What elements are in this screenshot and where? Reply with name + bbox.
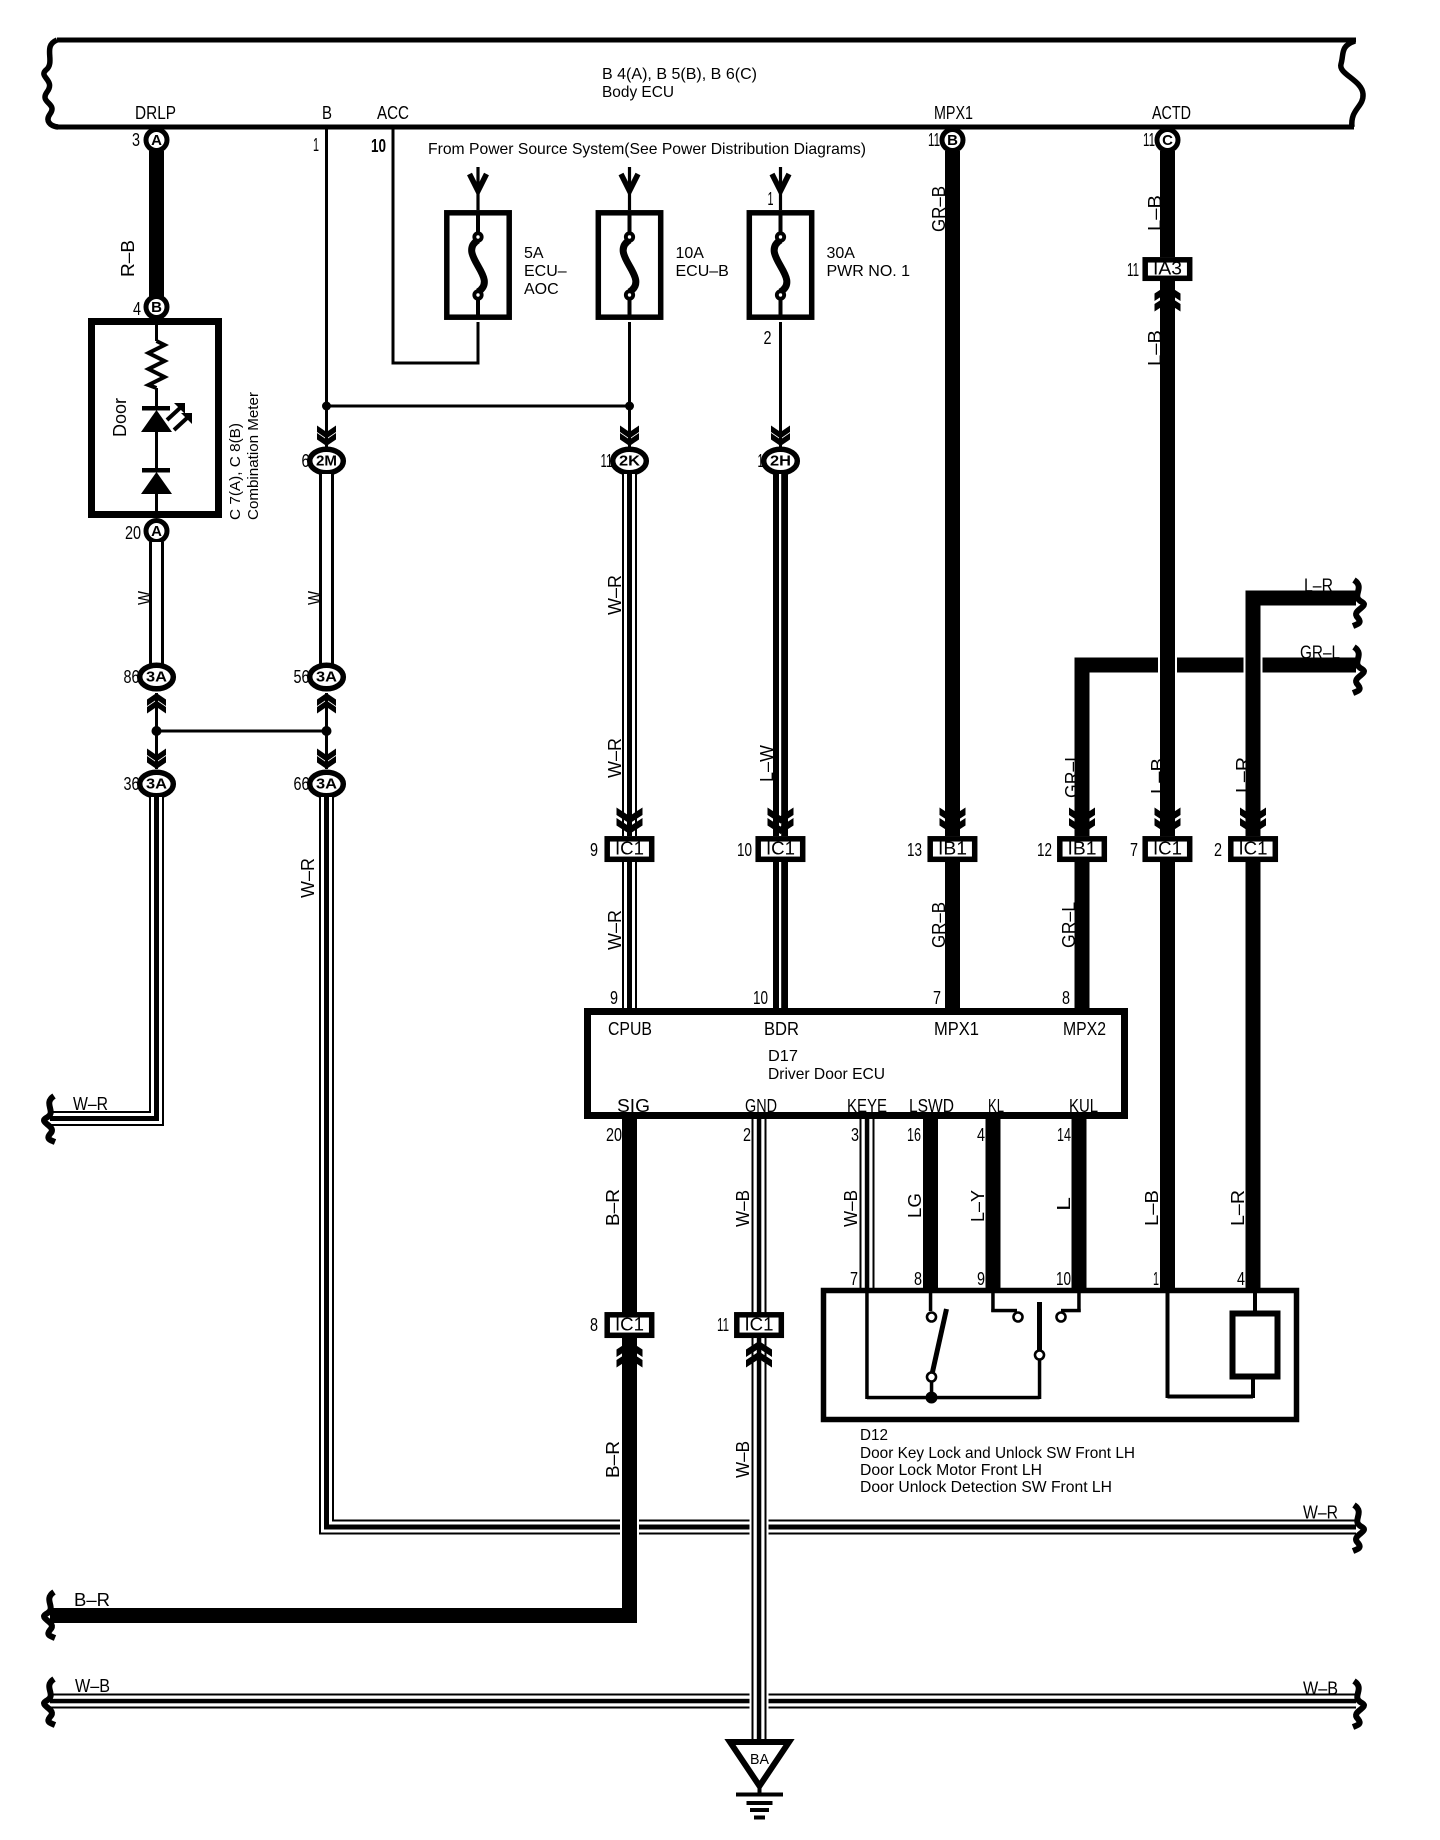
svg-text:2: 2 [764, 328, 772, 348]
svg-text:W–B: W–B [841, 1190, 861, 1227]
combination meter box C7(A) C8(B) [92, 322, 263, 521]
wire W-B ground bus to left and right edges [44, 1676, 1364, 1727]
connector 3A pin 86 [124, 665, 174, 689]
svg-text:11: 11 [928, 130, 940, 150]
svg-text:W–B: W–B [75, 1676, 110, 1696]
svg-text:Combination Meter: Combination Meter [245, 392, 262, 520]
svg-text:B–R: B–R [74, 1590, 110, 1610]
wire W-R from 3A-36 to left edge [44, 797, 164, 1142]
svg-text:L–B: L–B [1142, 1190, 1162, 1226]
wire from fuse PWR NO.1 to 2H [779, 322, 782, 447]
svg-text:C: C [1162, 132, 1173, 149]
connector IB1 pin 13 [907, 808, 975, 861]
svg-text:IC1: IC1 [615, 839, 644, 859]
svg-text:W–R: W–R [73, 1094, 108, 1114]
svg-text:6: 6 [302, 451, 310, 471]
svg-text:GR–L: GR–L [1300, 643, 1340, 663]
svg-text:10: 10 [1056, 1269, 1071, 1289]
junction node ECU-B wire [625, 402, 634, 411]
svg-text:B–R: B–R [603, 1441, 623, 1478]
wire R-B from DRLP to combination meter [118, 151, 164, 297]
connector IC1 pin 7 [1130, 808, 1190, 861]
svg-text:IB1: IB1 [938, 839, 967, 859]
svg-text:D12: D12 [860, 1427, 888, 1444]
svg-text:W: W [305, 591, 325, 605]
svg-text:Door Key Lock and Unlock SW Fr: Door Key Lock and Unlock SW Front LH [860, 1445, 1135, 1462]
svg-text:2M: 2M [316, 453, 337, 470]
svg-text:L–R: L–R [1304, 576, 1333, 596]
svg-text:1: 1 [313, 135, 319, 155]
wire junction segment left [147, 693, 166, 731]
svg-text:2K: 2K [619, 453, 640, 470]
wire GR-L from IB1 to D17 MPX2 pin 8 [1059, 862, 1090, 1011]
svg-text:36: 36 [124, 774, 140, 794]
svg-text:L–W: L–W [757, 745, 777, 782]
svg-text:KEYE: KEYE [847, 1096, 887, 1116]
svg-text:From Power Source System(See P: From Power Source System(See Power Distr… [428, 141, 866, 158]
svg-text:GR–B: GR–B [929, 186, 949, 232]
svg-text:SIG: SIG [617, 1096, 650, 1116]
wire L-B from ACTD to IA3 [1145, 151, 1175, 257]
svg-text:IC1: IC1 [766, 839, 795, 859]
svg-text:B: B [322, 103, 332, 123]
svg-text:MPX2: MPX2 [1063, 1019, 1106, 1039]
svg-text:10: 10 [371, 136, 386, 156]
svg-text:3A: 3A [316, 776, 337, 793]
wire B-R horizontal to left edge [44, 1590, 637, 1638]
svg-text:1: 1 [768, 189, 774, 209]
svg-text:CPUB: CPUB [608, 1019, 652, 1039]
wire L-W from 2H to IC1 pin 10 [757, 474, 788, 836]
svg-text:3A: 3A [146, 669, 167, 686]
svg-text:16: 16 [907, 1125, 921, 1145]
svg-text:KUL: KUL [1069, 1096, 1098, 1116]
svg-text:12: 12 [1037, 840, 1052, 860]
pin 4 connector B of combination meter [133, 297, 167, 320]
pin 11 connector C ACTD [1143, 130, 1178, 151]
svg-text:7: 7 [850, 1269, 858, 1289]
svg-text:ACTD: ACTD [1152, 103, 1191, 123]
svg-text:MPX1: MPX1 [934, 103, 973, 123]
D12 box Door Key Lock and Unlock SW / Door Lock Motor / Door Unlock Detection SW [824, 1291, 1297, 1497]
connector IC1 pin 9 [590, 808, 652, 861]
connector IA3 pin 11 [1127, 259, 1190, 312]
svg-text:3: 3 [851, 1125, 859, 1145]
svg-text:8: 8 [590, 1315, 598, 1335]
wire W-B from D17 GND pin 2 [733, 1119, 767, 1742]
wire L-R entering from right edge [1233, 576, 1364, 837]
svg-text:9: 9 [610, 988, 618, 1008]
fuse 10A ECU&#8211;B [598, 167, 729, 318]
svg-text:9: 9 [590, 840, 598, 860]
svg-text:66: 66 [294, 774, 310, 794]
pin 3 connector A of Body ECU [132, 130, 167, 151]
svg-text:C 7(A), C 8(B): C 7(A), C 8(B) [227, 423, 244, 520]
Body ECU connector band B4(A) B5(B) B6(C) [44, 38, 1363, 130]
wire L from D17 KUL pin 14 to D12 pin 10 [1054, 1119, 1087, 1291]
svg-text:1: 1 [758, 451, 764, 471]
svg-text:IC1: IC1 [1153, 839, 1182, 859]
diode inside combination meter [141, 468, 172, 518]
svg-text:D17: D17 [768, 1048, 798, 1065]
svg-text:3: 3 [132, 130, 140, 150]
svg-text:PWR NO. 1: PWR NO. 1 [827, 263, 911, 280]
junction node B wire [322, 402, 331, 411]
wire to 3A pin 66 [317, 731, 336, 769]
door key lock-unlock switch [927, 1293, 947, 1397]
svg-text:IB1: IB1 [1068, 839, 1097, 859]
svg-text:AOC: AOC [524, 281, 559, 298]
svg-text:R–B: R–B [118, 240, 138, 277]
wire crossing gaps on W-R bus [620, 1515, 769, 1540]
svg-text:GND: GND [745, 1096, 777, 1116]
wire L-Y from D17 KL pin 4 to D12 pin 9 [968, 1119, 1001, 1291]
svg-text:IC1: IC1 [745, 1315, 774, 1335]
svg-text:IC1: IC1 [1239, 839, 1268, 859]
svg-text:56: 56 [294, 667, 310, 687]
wire W from combination meter to junction 3A [135, 542, 164, 665]
svg-text:KL: KL [988, 1096, 1004, 1116]
wire from fuse ECU-B to junction [628, 322, 631, 406]
svg-text:MPX1: MPX1 [934, 1019, 979, 1039]
svg-text:1: 1 [1153, 1269, 1159, 1289]
svg-text:L–Y: L–Y [968, 1190, 988, 1222]
connector 3A pin 66 [294, 772, 344, 796]
svg-text:L–R: L–R [1233, 757, 1253, 793]
junction node left [152, 726, 162, 736]
svg-text:Door: Door [110, 398, 130, 437]
svg-text:2: 2 [743, 1125, 751, 1145]
svg-text:W–R: W–R [298, 858, 318, 898]
svg-text:L–B: L–B [1145, 195, 1165, 231]
wire L-B from IC1 to D12 pin 1 [1142, 862, 1175, 1291]
wire W-R from IC1 to D17 CPUB pin 9 [605, 862, 637, 1011]
connector 3A pin 36 [124, 772, 174, 796]
pin 11 connector B MPX1 [928, 130, 963, 151]
svg-text:8: 8 [1062, 988, 1070, 1008]
connector IC1 pin 10 [737, 808, 803, 861]
wire L-B from IA3 down to IC1 pin 7 [1145, 281, 1175, 836]
svg-text:86: 86 [124, 667, 140, 687]
svg-text:13: 13 [907, 840, 922, 860]
connector 2M pin 6 [302, 406, 344, 473]
wire L-W from IC1 to D17 BDR pin 10 [753, 862, 788, 1011]
svg-text:W–R: W–R [605, 910, 625, 950]
svg-text:DRLP: DRLP [135, 103, 176, 123]
connector IB1 pin 12 [1037, 808, 1104, 861]
fuse 30A PWR NO. 1 [749, 167, 910, 348]
svg-text:GR–B: GR–B [929, 902, 949, 948]
connector 2K pin 11 [601, 406, 647, 473]
junction node in D12 [926, 1392, 938, 1404]
wire B-R from D17 SIG pin 20 [603, 1119, 637, 1623]
resistor inside combination meter [149, 318, 165, 406]
svg-text:L–B: L–B [1145, 330, 1165, 366]
svg-text:W–R: W–R [1303, 1503, 1338, 1523]
svg-text:3A: 3A [316, 669, 337, 686]
wire W from 2M to 3A-56 [305, 474, 334, 665]
wire B from Body ECU pin 1 [313, 129, 328, 406]
svg-text:W–B: W–B [1303, 1679, 1338, 1699]
svg-text:9: 9 [977, 1269, 985, 1289]
svg-text:B 4(A), B 5(B), B 6(C): B 4(A), B 5(B), B 6(C) [602, 66, 757, 83]
svg-text:11: 11 [1127, 260, 1139, 280]
svg-text:4: 4 [133, 299, 141, 319]
svg-text:IA3: IA3 [1153, 259, 1182, 279]
D17 Driver Door ECU box [588, 1012, 1125, 1117]
wire ACC from Body ECU pin 10 to fuse ECU-AOC [371, 129, 480, 365]
svg-text:LG: LG [905, 1193, 925, 1218]
svg-text:3A: 3A [146, 776, 167, 793]
fuse 5A ECU&#8211; AOC [447, 167, 567, 318]
wire GR-B from IB1 to D17 MPX1 pin 7 [929, 862, 960, 1011]
svg-text:B: B [151, 299, 162, 316]
junction bar B to ECU-B [327, 405, 630, 408]
svg-text:11: 11 [1143, 130, 1155, 150]
svg-text:W: W [135, 591, 155, 605]
svg-text:10A: 10A [676, 245, 705, 262]
svg-text:11: 11 [601, 451, 613, 471]
svg-text:11: 11 [717, 1315, 729, 1335]
svg-text:4: 4 [977, 1125, 985, 1145]
svg-text:W–B: W–B [733, 1190, 753, 1227]
svg-text:A: A [151, 523, 162, 540]
wire W-R from 3A-66 to right edge W-R [298, 797, 1364, 1551]
svg-text:B: B [947, 132, 958, 149]
svg-text:IC1: IC1 [615, 1315, 644, 1335]
svg-text:BDR: BDR [764, 1019, 799, 1039]
wire to 3A pin 36 [147, 731, 166, 769]
svg-text:GR–L: GR–L [1062, 752, 1082, 798]
svg-text:ECU–B: ECU–B [676, 263, 729, 280]
svg-text:20: 20 [606, 1125, 622, 1145]
svg-text:A: A [151, 132, 162, 149]
svg-text:10: 10 [753, 988, 768, 1008]
svg-text:2: 2 [1214, 840, 1222, 860]
svg-text:BA: BA [750, 1751, 769, 1768]
connector IC1 pin 2 [1214, 808, 1275, 861]
svg-text:B–R: B–R [603, 1189, 623, 1226]
svg-text:30A: 30A [827, 245, 856, 262]
junction node right [322, 726, 332, 736]
wire LG from D17 LSWD pin 16 to D12 pin 8 [905, 1119, 938, 1291]
connector IC1 pin 8 on B-R wire [590, 1315, 652, 1368]
wire W-B from D17 KEYE pin 3 to D12 pin 7 [841, 1119, 875, 1291]
door lock motor [1166, 1293, 1278, 1399]
door indicator LED [141, 403, 192, 468]
svg-text:L–R: L–R [1228, 1190, 1248, 1226]
wire W-R from 2K to IC1 pin 9 [605, 474, 637, 836]
D12 internal wire from pin 7 [865, 1293, 1039, 1399]
svg-text:7: 7 [1130, 840, 1138, 860]
connector IC1 pin 11 on W-B wire [717, 1315, 781, 1368]
svg-text:8: 8 [914, 1269, 922, 1289]
svg-text:14: 14 [1057, 1125, 1071, 1145]
svg-text:L: L [1054, 1197, 1074, 1211]
wire GR-B from MPX1 to IB1 pin 13 [929, 151, 960, 836]
svg-text:ECU–: ECU– [524, 263, 567, 280]
ground BA [730, 1742, 789, 1820]
svg-text:W–R: W–R [605, 575, 625, 615]
svg-text:Driver Door ECU: Driver Door ECU [768, 1066, 885, 1083]
svg-text:10: 10 [737, 840, 752, 860]
svg-text:4: 4 [1237, 1269, 1245, 1289]
connector 2H pin 1 [758, 426, 798, 473]
svg-text:GR–L: GR–L [1059, 902, 1079, 948]
connector 3A pin 56 [294, 665, 344, 731]
svg-text:Door Lock Motor Front LH: Door Lock Motor Front LH [860, 1462, 1042, 1479]
junction bar between 3A connectors [157, 730, 327, 733]
svg-text:2H: 2H [770, 453, 791, 470]
pin 20 connector A of combination meter [125, 521, 167, 544]
door unlock detection switch [991, 1293, 1080, 1399]
svg-text:W–R: W–R [605, 738, 625, 778]
wire L-R from IC1 to D12 pin 4 [1228, 862, 1261, 1291]
svg-text:20: 20 [125, 523, 141, 543]
svg-text:7: 7 [933, 988, 941, 1008]
svg-text:Body ECU: Body ECU [602, 84, 674, 101]
svg-text:ACC: ACC [377, 103, 409, 123]
svg-text:5A: 5A [524, 245, 544, 262]
svg-text:LSWD: LSWD [909, 1096, 954, 1116]
svg-text:W–B: W–B [733, 1441, 753, 1478]
svg-text:Door Unlock Detection SW Front: Door Unlock Detection SW Front LH [860, 1479, 1112, 1496]
wire GR-L entering from right edge [1062, 643, 1364, 837]
svg-text:L–B: L–B [1148, 758, 1168, 794]
